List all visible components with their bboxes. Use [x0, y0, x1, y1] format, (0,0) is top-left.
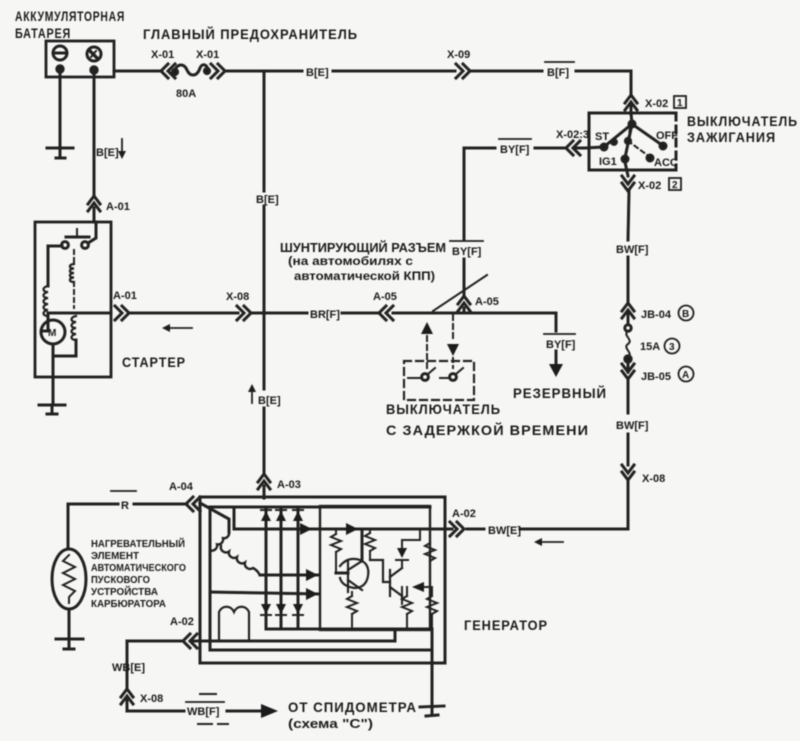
regulator arrow into node [412, 582, 432, 592]
field bus A-02 line [200, 640, 395, 643]
connector JB-05 chevrons [622, 362, 634, 379]
ignition switch pivot [629, 121, 635, 127]
connector A-04 chevrons [186, 497, 200, 511]
wire label BY[F] from ignition overlined [450, 240, 483, 242]
svg-text:КАРБЮРАТОРА: КАРБЮРАТОРА [91, 599, 166, 610]
fuse 15A symbol [625, 325, 631, 362]
wire B[F] to corner [576, 71, 631, 96]
wire B[E] vertical main feed upper [263, 71, 266, 191]
heater element label [91, 537, 186, 610]
svg-text:A: A [682, 370, 689, 381]
battery negative post dot [57, 66, 63, 72]
diode D6 down [293, 604, 303, 615]
starter hold coil upper [70, 264, 74, 282]
wire BY[F] vertical to A-05 [463, 259, 466, 297]
shunt connector note [280, 240, 446, 283]
starter internal bus to output [48, 312, 111, 315]
regulator transistor Q1 [340, 559, 368, 592]
wire contact left to coil [48, 246, 62, 286]
direction arrow small down [118, 139, 126, 159]
connector X-01 chevrons right [211, 64, 225, 78]
svg-text:BW[F]: BW[F] [616, 420, 649, 432]
stator tap wire low with arrow [210, 588, 318, 600]
starter contact terminal left [62, 242, 69, 249]
wire coil to motor [42, 316, 48, 331]
svg-text:B[E]: B[E] [258, 395, 281, 407]
stator mid tap bumps [221, 546, 260, 575]
heater zigzag [63, 555, 75, 603]
fuse 80A fusible link squiggle [174, 65, 208, 75]
ground battery [47, 148, 73, 158]
wire BW[E] to A-02 chevrons [467, 528, 484, 531]
svg-text:(на автомобилях с: (на автомобилях с [288, 256, 414, 268]
svg-text:ПУСКОВОГО: ПУСКОВОГО [91, 575, 150, 586]
connector JB-04 chevrons [622, 303, 634, 324]
rectifier phase line 1 [265, 507, 268, 629]
ignition switch title [687, 114, 798, 145]
svg-text:B[E]: B[E] [256, 194, 279, 206]
diode D1 up [261, 510, 271, 521]
connector A-03 chevrons [258, 474, 270, 498]
regulator resistor R6 [427, 587, 437, 629]
ignition switch contact OFF [632, 124, 662, 145]
wire chevrons to BY[F] label [535, 147, 566, 150]
regulator zener diode [396, 529, 420, 568]
wire label BY[F] reserve overlined [544, 333, 575, 335]
wire A-05 row to corner [393, 313, 556, 331]
regulator wire Q1 collector up [361, 529, 364, 561]
svg-text:R: R [121, 500, 129, 512]
rectifier phase line 2 [280, 507, 283, 629]
generator ground drop wire [431, 629, 434, 706]
svg-text:B: B [682, 309, 689, 320]
battery positive terminal [87, 47, 101, 61]
direction arrow left under BW[E] [534, 538, 563, 546]
wire BR[F] to A-05 [342, 312, 379, 315]
wire X-08 to BR[F] label [251, 312, 307, 315]
svg-text:BY[F]: BY[F] [452, 246, 482, 258]
svg-text:ST: ST [595, 131, 609, 143]
time delay switch drop arrow down [447, 315, 459, 368]
svg-text:ГЛАВНЫЙ ПРЕДОХРАНИТЕЛЬ: ГЛАВНЫЙ ПРЕДОХРАНИТЕЛЬ [143, 27, 358, 42]
ignition switch pin labels [595, 130, 678, 169]
battery GB1 box [46, 41, 114, 77]
svg-text:15A: 15A [640, 341, 660, 353]
svg-text:ВЫКЛЮЧАТЕЛЬ: ВЫКЛЮЧАТЕЛЬ [386, 402, 501, 417]
svg-text:ACC: ACC [654, 157, 678, 169]
svg-text:A-01: A-01 [113, 290, 137, 302]
svg-text:АВТОМАТИЧЕСКОГО: АВТОМАТИЧЕСКОГО [91, 563, 186, 574]
shunt pointer line [433, 275, 487, 311]
svg-text:WB[F]: WB[F] [187, 706, 220, 718]
svg-text:РЕЗЕРВНЫЙ: РЕЗЕРВНЫЙ [513, 386, 607, 401]
svg-text:2: 2 [672, 180, 678, 191]
wire B[E] vertical continue [263, 206, 266, 389]
svg-text:A-05: A-05 [373, 291, 397, 303]
svg-text:M: M [48, 328, 56, 339]
svg-text:A-02: A-02 [170, 616, 194, 628]
svg-text:(схема "С"): (схема "С") [288, 717, 373, 731]
svg-text:УСТРОЙСТВА: УСТРОЙСТВА [91, 585, 158, 598]
battery positive post dot [91, 67, 97, 73]
connector X-02 pin1 chevrons [625, 95, 637, 114]
svg-text:X-01: X-01 [196, 49, 219, 61]
diode D5 down [276, 604, 286, 615]
field bus link to regulator [394, 630, 397, 641]
starter solenoid contact bar [66, 229, 89, 237]
regulator emitter wire Q2 [401, 596, 403, 604]
generator G1 outer box [200, 497, 445, 663]
diode D4 down [261, 604, 271, 615]
svg-text:A-01: A-01 [106, 201, 130, 213]
svg-text:A-03: A-03 [277, 479, 301, 491]
connector X-01 chevrons left [161, 64, 175, 78]
generator inner left rail [209, 507, 212, 650]
time delay switch drop arrow up [421, 322, 433, 368]
svg-text:A-05: A-05 [475, 296, 499, 308]
regulator resistor R5 [402, 587, 412, 629]
svg-text:X-02:3: X-02:3 [556, 129, 589, 141]
svg-text:ГЕНЕРАТОР: ГЕНЕРАТОР [464, 618, 548, 633]
starter coil lower right [72, 316, 77, 340]
starter pull coil left [44, 286, 49, 316]
ignition switch rotor wire in [631, 113, 632, 124]
connector X-08 mid chevrons [237, 306, 251, 320]
regulator sub-box [320, 506, 430, 630]
svg-text:OFF: OFF [656, 130, 678, 142]
svg-text:WB[E]: WB[E] [112, 662, 145, 674]
wire battery into contact [88, 222, 96, 243]
connector X-08 bottom chevrons [121, 689, 133, 711]
wire starter row to X-08 [129, 312, 238, 315]
svg-text:автоматической КПП): автоматической КПП) [294, 271, 435, 283]
wire to speedometer [127, 710, 184, 713]
svg-text:BY[F]: BY[F] [546, 339, 576, 351]
svg-text:JB-04: JB-04 [641, 309, 672, 321]
connector A-01 battery to starter [88, 196, 100, 222]
wire coil lower to motor bottom [56, 340, 76, 356]
connector X-02 pin2 chevrons below switch [622, 162, 634, 191]
stator winding bumps [210, 532, 229, 553]
regulator wire base Q1 [336, 572, 348, 575]
connector X-09 chevrons [456, 64, 470, 78]
dashes around WB[F] [198, 694, 228, 724]
svg-text:ВЫКЛЮЧАТЕЛЬ: ВЫКЛЮЧАТЕЛЬ [687, 114, 798, 129]
wire X-08 down and left to generator [520, 480, 628, 529]
starter motor M [41, 320, 65, 344]
wire ignition column BW[F] upper [628, 191, 629, 240]
svg-text:X-09: X-09 [447, 49, 470, 61]
svg-text:JB-05: JB-05 [641, 371, 671, 383]
svg-text:X-01: X-01 [151, 49, 174, 61]
wire X-09 to B[F] label [470, 70, 542, 73]
svg-text:С ЗАДЕРЖКОЙ ВРЕМЕНИ: С ЗАДЕРЖКОЙ ВРЕМЕНИ [386, 423, 589, 438]
wire battery positive down [93, 70, 96, 196]
svg-text:X-02: X-02 [638, 180, 661, 192]
regulator resistor R4 [347, 592, 357, 629]
svg-text:СТАРТЕР: СТАРТЕР [122, 355, 186, 370]
svg-text:BW[F]: BW[F] [616, 244, 649, 256]
generator inner bottom line [210, 649, 430, 652]
connector A-02 field chevrons [183, 634, 197, 648]
rectifier bottom bus [266, 628, 430, 631]
wire JB-05 down [627, 379, 630, 413]
direction arrow left small [162, 324, 192, 332]
wire B[E] label to X-09 [333, 70, 455, 73]
wire to JB-04 [627, 257, 630, 304]
starter solenoid plunger dashed link [73, 250, 75, 264]
rectifier phase line 3 [297, 507, 300, 629]
connector A-02 output chevrons [445, 522, 464, 536]
direction tick up [248, 384, 256, 403]
wire fuse to B[E] label [225, 70, 302, 73]
speedometer arrow [227, 704, 278, 718]
svg-text:ЭЛЕМЕНТ: ЭЛЕМЕНТ [91, 551, 139, 562]
generator output bus [234, 507, 445, 535]
heater feed wire top [68, 504, 118, 549]
svg-text:80A: 80A [176, 88, 196, 100]
ignition switch wiper dash-dot [628, 128, 650, 157]
regulator resistor R3 right rail [425, 529, 435, 561]
svg-text:АККУМУЛЯТОРНАЯ: АККУМУЛЯТОРНАЯ [15, 9, 125, 24]
battery negative terminal [53, 46, 67, 60]
svg-text:ОТ СПИДОМЕТРА: ОТ СПИДОМЕТРА [288, 700, 417, 715]
svg-text:X-08: X-08 [140, 693, 163, 705]
svg-text:X-08: X-08 [226, 291, 249, 303]
ignition switch U1 box [589, 113, 676, 170]
diode D3 up [293, 510, 303, 521]
wire label B[F] overlined [545, 61, 574, 63]
svg-text:3: 3 [669, 342, 675, 353]
wire label WB[F] overlined [186, 701, 224, 703]
regulator transistor Q2 [370, 560, 402, 596]
time delay contact left [408, 368, 435, 380]
wire battery negative to ground [59, 70, 62, 147]
generator inner top bus [210, 506, 430, 509]
diode D2 up [276, 510, 286, 521]
ground starter [39, 405, 65, 414]
svg-text:X-08: X-08 [642, 473, 665, 485]
wire R to A-04 [134, 503, 186, 506]
wire heater to ground [68, 609, 71, 638]
stator tap wire mid with arrow [260, 569, 318, 581]
svg-text:ШУНТИРУЮЩИЙ РАЗЪЕМ: ШУНТИРУЮЩИЙ РАЗЪЕМ [280, 240, 446, 255]
starter contact terminal right [82, 242, 89, 249]
wire A-02 field exit left [193, 640, 200, 643]
svg-text:БАТАРЕЯ: БАТАРЕЯ [15, 26, 71, 41]
ignition switch contact ST [605, 124, 632, 146]
connector A-01 starter output chevrons [115, 306, 129, 320]
svg-text:ЗАЖИГАНИЯ: ЗАЖИГАНИЯ [687, 130, 776, 145]
connector X-02 pin3 chevrons [566, 141, 589, 155]
connector A-05 chevrons left [379, 306, 393, 320]
connector X-08 right chevrons [622, 465, 634, 480]
regulator resistor R2 [365, 529, 375, 560]
svg-text:B[F]: B[F] [547, 67, 569, 79]
svg-text:НАГРЕВАТЕЛЬНЫЙ: НАГРЕВАТЕЛЬНЫЙ [91, 537, 185, 550]
wire BY[F] to corner down [464, 148, 495, 240]
starter M1 box [35, 222, 111, 377]
wire label BY[F] overlined [499, 138, 531, 140]
svg-text:BY[F]: BY[F] [500, 144, 530, 156]
svg-text:B[E]: B[E] [306, 67, 329, 79]
time delay switch label [386, 402, 589, 438]
wire battery to fuse [114, 70, 160, 73]
ignition switch contact IG1 [625, 124, 632, 158]
ground generator [420, 706, 444, 716]
field winding [219, 607, 249, 641]
svg-text:BW[E]: BW[E] [488, 525, 521, 537]
wire to X-08 right [627, 434, 630, 465]
svg-text:B[E]: B[E] [96, 147, 119, 159]
svg-text:A-04: A-04 [169, 481, 194, 493]
svg-text:1: 1 [677, 98, 683, 109]
wire B[E] vertical to generator [263, 408, 266, 474]
time delay contact right [440, 368, 463, 380]
svg-text:IG1: IG1 [599, 156, 617, 168]
wire motor to ground [52, 344, 55, 404]
regulator resistor R1 [331, 529, 341, 573]
svg-text:X-02: X-02 [645, 98, 668, 110]
wire ST terminal out left [584, 147, 604, 148]
stator feed diagonal [200, 503, 229, 532]
wire A-02 to left column [127, 641, 183, 690]
battery title [15, 9, 125, 41]
connector A-05 vertical chevrons [458, 296, 470, 313]
svg-text:A-02: A-02 [452, 508, 476, 520]
stator left drop [209, 552, 212, 592]
svg-text:BR[F]: BR[F] [310, 309, 340, 321]
time delay switch dashed box [404, 361, 474, 400]
carburetor heater element oval [52, 549, 86, 609]
reserve arrow down [549, 351, 563, 377]
ground heater [56, 639, 83, 649]
speedometer label [288, 700, 417, 731]
